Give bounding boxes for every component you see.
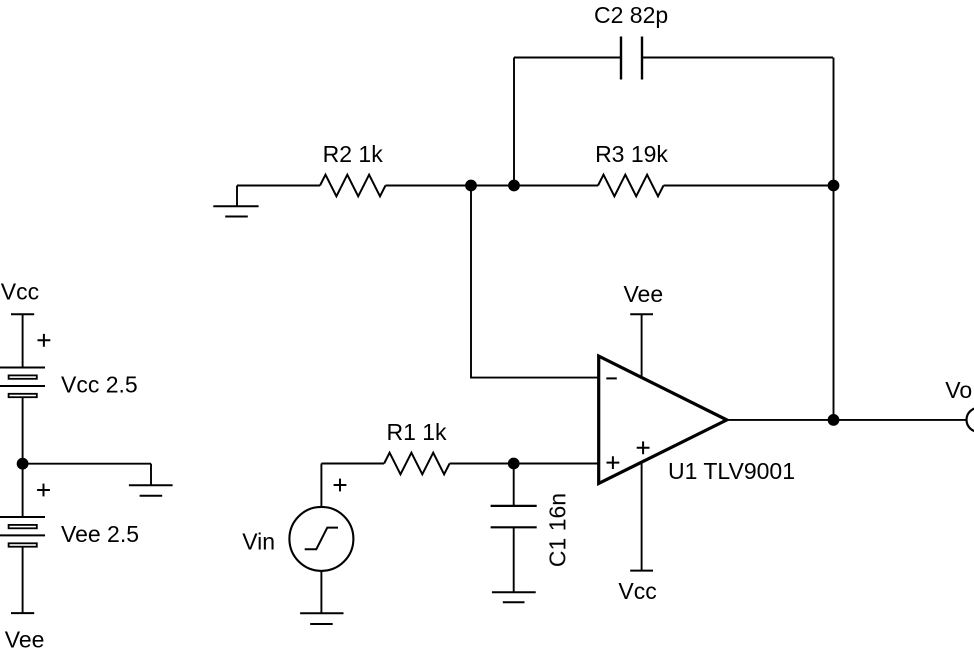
svg-text:R3 19k: R3 19k: [595, 141, 668, 167]
svg-text:Vcc: Vcc: [1, 278, 39, 304]
svg-text:C2 82p: C2 82p: [594, 2, 668, 28]
svg-text:Vee: Vee: [623, 281, 663, 307]
svg-text:R1 1k: R1 1k: [386, 419, 447, 445]
svg-text:Vin: Vin: [242, 528, 275, 554]
svg-text:Vcc 2.5: Vcc 2.5: [61, 371, 138, 397]
svg-text:Vo: Vo: [945, 377, 972, 403]
svg-text:Vee 2.5: Vee 2.5: [61, 521, 139, 547]
svg-text:U1 TLV9001: U1 TLV9001: [668, 458, 795, 484]
svg-text:Vee: Vee: [5, 626, 45, 652]
svg-text:Vcc: Vcc: [618, 578, 656, 604]
svg-text:R2 1k: R2 1k: [323, 141, 384, 167]
svg-text:C1 16n: C1 16n: [544, 493, 570, 567]
